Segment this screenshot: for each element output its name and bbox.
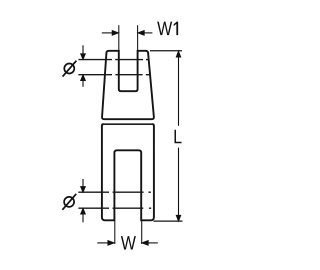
lower fork hole hidden line (top edge) xyxy=(78,191,150,193)
upper fork hole hidden line (top edge) xyxy=(78,59,148,61)
W1 label xyxy=(157,22,178,35)
W1 dimension arrow right xyxy=(138,31,152,35)
L label xyxy=(175,130,182,143)
upper fork body outline xyxy=(102,51,154,119)
L top extension line xyxy=(150,50,182,52)
top hole diameter arrow lower xyxy=(81,75,85,87)
lower fork hole hidden line (bottom edge) xyxy=(78,207,151,209)
bottom hole diameter arrow upper xyxy=(81,179,85,192)
W1 extension lines xyxy=(119,25,138,50)
top hole diameter arrow upper xyxy=(81,45,85,59)
W1 dimension arrow left xyxy=(102,31,118,35)
top hole diameter symbol xyxy=(63,61,77,77)
L bottom extension line xyxy=(154,220,183,222)
lower fork body outline xyxy=(102,124,154,220)
bottom hole diameter arrow lower xyxy=(81,209,85,223)
W dimension arrow right xyxy=(142,241,158,245)
bottom hole diameter symbol xyxy=(62,194,76,210)
W extension lines xyxy=(115,221,142,244)
upper fork hole hidden line (bottom edge) xyxy=(78,74,149,76)
L dimension line with arrows xyxy=(176,51,180,221)
W label xyxy=(121,236,136,249)
W dimension arrow left xyxy=(97,241,114,245)
